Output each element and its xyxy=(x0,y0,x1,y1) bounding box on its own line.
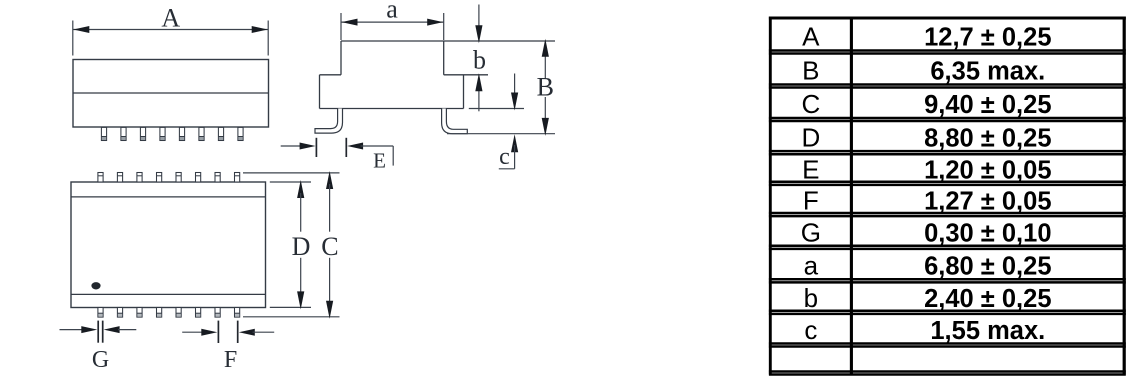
bottom view top pin 1 xyxy=(98,173,103,183)
side view left lead gull-wing xyxy=(315,109,343,134)
bottom view lower inner line xyxy=(71,293,266,295)
side view cap right edge xyxy=(443,41,445,75)
svg-text:B: B xyxy=(802,55,819,85)
top view body parting line xyxy=(73,92,269,94)
table row G xyxy=(801,217,1052,247)
svg-text:b: b xyxy=(804,283,818,313)
table row F xyxy=(803,185,1052,215)
svg-text:6,35 max.: 6,35 max. xyxy=(930,57,1045,85)
dim G left arrow xyxy=(60,326,98,333)
dimension table frame xyxy=(769,17,1126,375)
svg-text:F: F xyxy=(803,185,819,215)
dim A extension line left xyxy=(72,21,74,56)
dim D top extension line xyxy=(270,181,311,183)
dim G right arrow xyxy=(104,326,137,333)
dim A dimension line xyxy=(73,26,268,33)
dim B dimension line lower part xyxy=(542,97,549,136)
bottom view upper inner line xyxy=(71,196,266,198)
dim C dimension line upper part xyxy=(326,171,333,232)
dim D bottom extension line xyxy=(270,306,311,308)
table row C xyxy=(801,89,1051,119)
side view seating plane line with B and c extension xyxy=(447,133,555,135)
table row B xyxy=(802,55,1045,85)
bottom view bottom pin 5 xyxy=(176,308,181,318)
dim c upper arrow xyxy=(511,74,518,111)
bottom view top pin 8 xyxy=(235,173,240,183)
side view body left edge xyxy=(319,75,321,109)
svg-text:1,20 ± 0,05: 1,20 ± 0,05 xyxy=(924,156,1051,184)
side view body right edge xyxy=(463,75,465,109)
dim a extension line right xyxy=(443,13,445,40)
bottom view top pin 4 xyxy=(157,173,162,183)
dim F tick right xyxy=(237,321,239,343)
bottom view bottom pin 1 xyxy=(98,308,103,318)
dim A extension line right xyxy=(267,21,269,56)
side view cap top line with B extension xyxy=(341,40,555,42)
top view pin 8 xyxy=(238,127,243,140)
svg-text:a: a xyxy=(804,250,819,280)
svg-text:1,55 max.: 1,55 max. xyxy=(930,317,1045,345)
table row A xyxy=(802,21,1051,51)
bottom view bottom pin 6 xyxy=(196,308,201,318)
svg-text:8,80 ± 0,25: 8,80 ± 0,25 xyxy=(924,124,1051,152)
side view right lead gull-wing xyxy=(442,109,468,134)
dim G tick left xyxy=(97,321,99,343)
bottom view package body xyxy=(71,182,266,308)
svg-text:F: F xyxy=(224,347,237,373)
bottom view top pin 7 xyxy=(215,173,220,183)
dim E right arrow with leader xyxy=(347,143,393,166)
svg-text:9,40 ± 0,25: 9,40 ± 0,25 xyxy=(924,91,1051,119)
dim D dimension line upper part xyxy=(297,180,304,232)
top view pin 3 xyxy=(140,127,145,140)
dim a dimension line xyxy=(341,19,444,26)
dim D dimension line lower part xyxy=(297,258,304,310)
svg-text:12,7 ± 0,25: 12,7 ± 0,25 xyxy=(924,23,1051,51)
bottom view top pin 6 xyxy=(196,173,201,183)
side view step line left xyxy=(320,74,342,76)
dim C top extension line xyxy=(243,172,340,174)
dim G tick right xyxy=(102,321,104,343)
svg-text:D: D xyxy=(292,232,311,261)
side view step line right with b extension xyxy=(444,74,488,76)
dim E left arrow xyxy=(281,143,316,150)
svg-text:0,30 ± 0,10: 0,30 ± 0,10 xyxy=(924,219,1051,247)
svg-text:c: c xyxy=(499,144,510,170)
bottom view bottom pin 4 xyxy=(157,308,162,318)
dim B dimension line upper part xyxy=(542,39,549,79)
dim C bottom extension line xyxy=(243,316,340,318)
table row E xyxy=(802,154,1051,184)
side view cap left edge xyxy=(340,41,342,75)
svg-text:2,40 ± 0,25: 2,40 ± 0,25 xyxy=(924,285,1051,313)
bottom view top pin 3 xyxy=(137,173,142,183)
svg-text:D: D xyxy=(801,122,820,152)
dim E tick left xyxy=(315,138,317,157)
top view pin 2 xyxy=(121,127,126,140)
dim F left arrow xyxy=(182,329,217,336)
svg-text:c: c xyxy=(804,315,817,345)
dim C dimension line lower part xyxy=(326,258,333,319)
svg-text:1,27 ± 0,05: 1,27 ± 0,05 xyxy=(924,187,1051,215)
top view pin 6 xyxy=(199,127,204,140)
bottom view top pin 5 xyxy=(176,173,181,183)
side view body bottom line xyxy=(320,108,464,110)
svg-text:G: G xyxy=(801,217,821,247)
top view package body xyxy=(73,60,269,128)
table row D xyxy=(801,122,1051,152)
bottom view bottom pin 3 xyxy=(137,308,142,318)
svg-text:G: G xyxy=(92,347,109,373)
dim b upper arrow xyxy=(475,5,482,44)
svg-text:C: C xyxy=(321,232,338,261)
table row b xyxy=(804,283,1052,313)
top view pin 5 xyxy=(179,127,184,140)
bottom view bottom pin 8 xyxy=(235,308,240,318)
dim b lower arrow xyxy=(475,73,482,111)
table row c xyxy=(804,315,1045,345)
svg-text:A: A xyxy=(802,21,820,51)
bottom view pin 1 index dot xyxy=(91,282,100,289)
dim F tick left xyxy=(217,321,219,343)
bottom view bottom pin 7 xyxy=(215,308,220,318)
svg-text:C: C xyxy=(801,89,820,119)
top view pin 7 xyxy=(218,127,223,140)
top view pin 1 xyxy=(101,127,106,140)
dim a extension line left xyxy=(340,13,342,40)
side view body bottom extension for dim c xyxy=(469,108,524,110)
svg-text:a: a xyxy=(386,0,398,24)
svg-text:6,80 ± 0,25: 6,80 ± 0,25 xyxy=(924,252,1051,280)
bottom view top pin 2 xyxy=(117,173,122,183)
svg-text:b: b xyxy=(473,46,486,75)
dim F right arrow xyxy=(239,329,274,336)
svg-text:E: E xyxy=(373,149,386,173)
top view pin 4 xyxy=(160,127,165,140)
svg-text:E: E xyxy=(802,154,819,184)
dim E tick right xyxy=(345,138,347,157)
table row a xyxy=(804,250,1052,280)
bottom view bottom pin 2 xyxy=(117,308,122,318)
svg-text:A: A xyxy=(161,3,180,32)
dim c lower arrow with leader xyxy=(499,134,518,169)
